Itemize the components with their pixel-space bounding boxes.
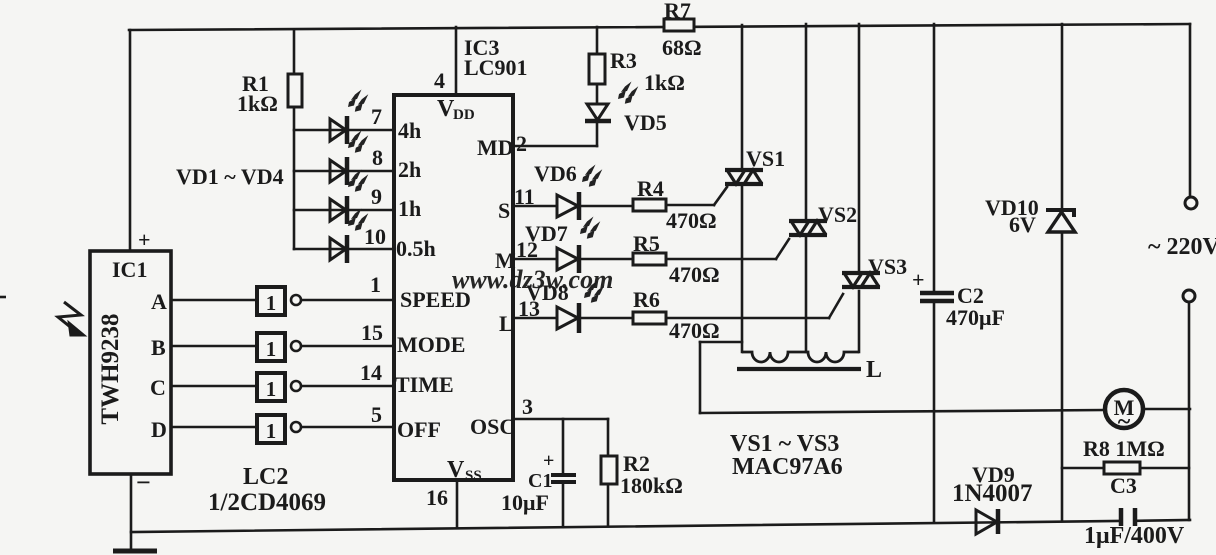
svg-text:4: 4: [434, 68, 445, 93]
svg-text:VS3: VS3: [868, 254, 907, 279]
svg-text:470μF: 470μF: [946, 305, 1005, 330]
svg-text:1: 1: [266, 377, 277, 401]
svg-text:R6: R6: [633, 287, 660, 312]
svg-text:VD7: VD7: [525, 221, 568, 246]
svg-text:1N4007: 1N4007: [952, 480, 1033, 507]
svg-text:1/2CD4069: 1/2CD4069: [208, 489, 326, 516]
svg-text:VS2: VS2: [818, 202, 857, 227]
svg-text:R4: R4: [637, 176, 664, 201]
svg-text:IC1: IC1: [112, 257, 147, 282]
svg-text:1: 1: [266, 419, 277, 443]
svg-text:2: 2: [516, 131, 527, 156]
svg-text:1: 1: [266, 337, 277, 361]
svg-text:~ 220V: ~ 220V: [1148, 234, 1216, 260]
svg-text:470Ω: 470Ω: [669, 318, 720, 343]
svg-text:~: ~: [1118, 409, 1131, 435]
svg-text:10: 10: [364, 224, 386, 249]
svg-text:15: 15: [361, 320, 383, 345]
svg-text:5: 5: [371, 402, 382, 427]
svg-text:1kΩ: 1kΩ: [644, 70, 685, 95]
svg-text:−: −: [136, 468, 151, 497]
svg-text:2h: 2h: [398, 157, 421, 182]
svg-text:9: 9: [371, 184, 382, 209]
svg-text:MD: MD: [477, 135, 514, 160]
svg-text:DD: DD: [453, 107, 475, 123]
svg-text:C: C: [150, 375, 166, 400]
svg-text:4h: 4h: [398, 118, 421, 143]
svg-text:1μF/400V: 1μF/400V: [1084, 523, 1185, 549]
svg-text:L: L: [866, 357, 882, 383]
svg-text:6V: 6V: [1009, 212, 1036, 237]
svg-text:V: V: [447, 457, 465, 483]
svg-text:68Ω: 68Ω: [662, 35, 702, 60]
svg-text:D: D: [151, 417, 167, 442]
svg-text:1h: 1h: [398, 196, 421, 221]
svg-text:3: 3: [522, 394, 533, 419]
svg-text:470Ω: 470Ω: [669, 262, 720, 287]
svg-text:C3: C3: [1110, 473, 1137, 498]
svg-text:C1: C1: [528, 470, 552, 492]
svg-text:LC901: LC901: [464, 55, 528, 80]
svg-text:LC2: LC2: [243, 464, 288, 490]
svg-text:R7: R7: [664, 0, 691, 23]
svg-text:OSC: OSC: [470, 414, 515, 439]
svg-text:+: +: [912, 267, 925, 292]
svg-text:470Ω: 470Ω: [666, 208, 717, 233]
svg-text:SS: SS: [465, 468, 482, 484]
svg-text:R5: R5: [633, 231, 660, 256]
svg-text:+: +: [543, 450, 554, 472]
svg-text:B: B: [151, 335, 166, 360]
svg-text:180kΩ: 180kΩ: [620, 473, 683, 498]
svg-text:MAC97A6: MAC97A6: [732, 454, 843, 480]
svg-text:14: 14: [360, 360, 382, 385]
svg-text:VD6: VD6: [534, 161, 577, 186]
svg-text:11: 11: [514, 184, 535, 209]
svg-text:VD1 ~ VD4: VD1 ~ VD4: [176, 164, 284, 189]
svg-text:MODE: MODE: [397, 332, 465, 357]
svg-text:10μF: 10μF: [501, 490, 549, 515]
svg-text:OFF: OFF: [397, 417, 441, 442]
svg-text:1: 1: [370, 272, 381, 297]
svg-text:S: S: [498, 198, 510, 223]
svg-text:16: 16: [426, 485, 448, 510]
svg-text:VS1: VS1: [746, 146, 785, 171]
svg-text:L: L: [499, 311, 514, 336]
svg-text:TWH9238: TWH9238: [97, 313, 124, 424]
svg-text:www.dz3w.com: www.dz3w.com: [452, 265, 613, 294]
svg-text:0.5h: 0.5h: [396, 236, 436, 261]
svg-text:VD5: VD5: [624, 110, 667, 135]
svg-text:7: 7: [371, 104, 382, 129]
svg-text:R3: R3: [610, 48, 637, 73]
svg-text:R8 1MΩ: R8 1MΩ: [1083, 436, 1165, 461]
svg-text:A: A: [151, 289, 167, 314]
svg-text:+: +: [138, 227, 151, 252]
svg-text:8: 8: [372, 145, 383, 170]
svg-text:1: 1: [266, 291, 277, 315]
svg-text:1kΩ: 1kΩ: [237, 91, 278, 116]
svg-text:TIME: TIME: [395, 372, 454, 397]
